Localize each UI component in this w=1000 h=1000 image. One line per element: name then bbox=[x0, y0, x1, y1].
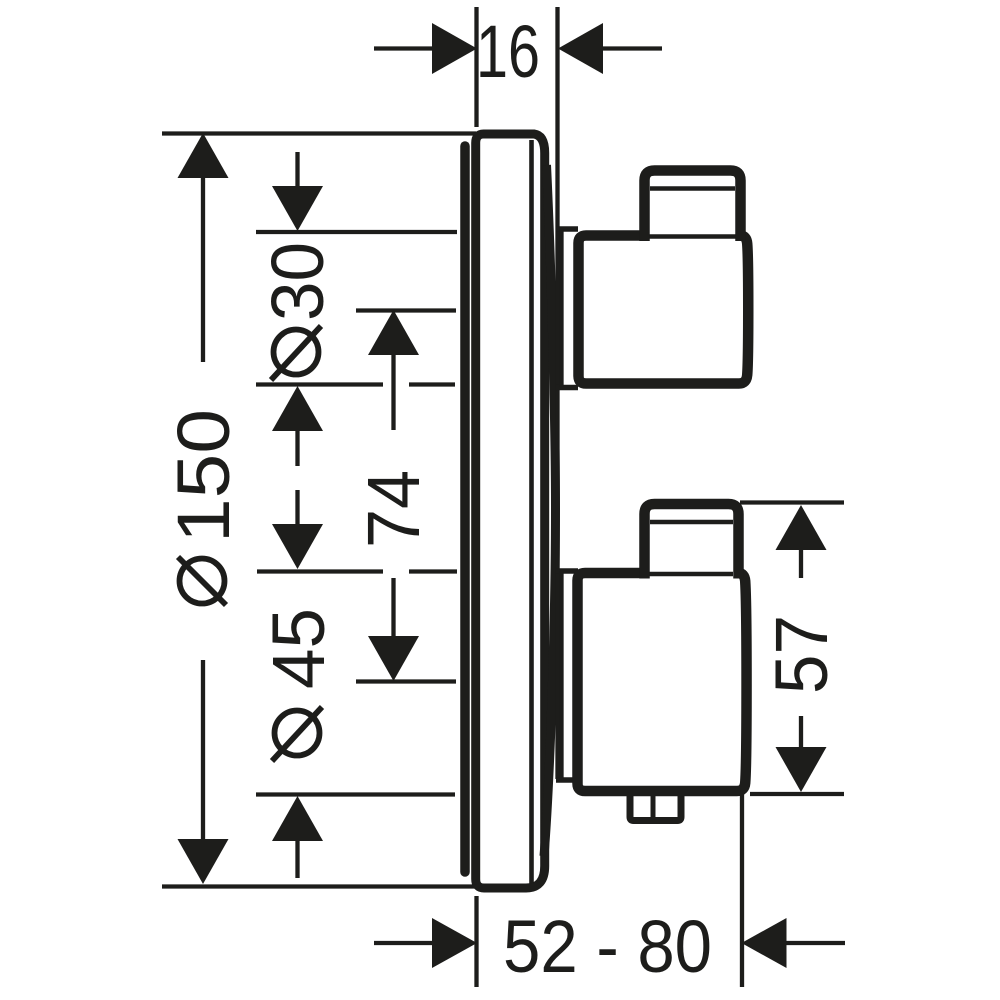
dimension 52-80 lines bbox=[477, 794, 743, 987]
arrow 57 top bbox=[776, 505, 827, 550]
svg-text:16: 16 bbox=[476, 10, 540, 93]
temperature stop tab bbox=[630, 791, 681, 821]
upper handle body top line under knob bbox=[648, 234, 736, 238]
upper knob inner line bbox=[650, 186, 735, 190]
arrow 16 right bbox=[558, 23, 603, 74]
arrow D150 top bbox=[178, 133, 229, 178]
arrow 16 left bbox=[432, 23, 477, 74]
label D45 bbox=[257, 608, 340, 761]
label 74 bbox=[352, 470, 435, 548]
arrow 52-80 right bbox=[742, 918, 787, 968]
dimension 57 lines bbox=[740, 503, 844, 795]
label 57 bbox=[760, 615, 843, 694]
upper valve neck bbox=[556, 229, 578, 388]
arrow 57 bottom bbox=[776, 747, 827, 792]
arrow D150 bottom bbox=[178, 839, 229, 884]
escutcheon plate outline bbox=[476, 134, 545, 888]
label D30 bbox=[256, 242, 339, 380]
arrow D45 bottom bbox=[272, 796, 323, 841]
lower valve neck bbox=[556, 571, 582, 780]
arrow 52-80 left bbox=[432, 918, 477, 968]
dimension 16 lines bbox=[374, 46, 662, 50]
arrow 74 bottom bbox=[368, 636, 419, 681]
arrow D30 bottom bbox=[272, 386, 323, 431]
arrow 74 top bbox=[368, 310, 419, 355]
lower knob inner line bbox=[650, 520, 733, 524]
upper knob bbox=[645, 171, 741, 242]
svg-text:150: 150 bbox=[162, 409, 245, 543]
dimension D45 lines bbox=[295, 490, 299, 526]
lower handle body top line under knob bbox=[649, 572, 733, 576]
dimension D150 extension lines bbox=[162, 134, 477, 887]
label D150 bbox=[162, 409, 245, 605]
lower knob bbox=[645, 504, 739, 579]
dimension 16 extension line left bbox=[474, 7, 478, 127]
wall flange line bbox=[460, 146, 470, 872]
dimension D30 lines bbox=[295, 152, 299, 188]
plate inner face line bbox=[529, 140, 534, 884]
front face extension line bbox=[555, 7, 559, 779]
svg-text:52 - 80: 52 - 80 bbox=[503, 905, 712, 988]
svg-text:30: 30 bbox=[256, 242, 339, 321]
arrow D30 top bbox=[272, 186, 323, 231]
dimension 74 lines bbox=[356, 311, 456, 682]
upper handle body bbox=[579, 236, 749, 384]
dimension D150 line bbox=[201, 176, 205, 842]
lower handle body bbox=[578, 573, 747, 791]
arrow D45 top bbox=[272, 524, 323, 569]
escutcheon face bulge arc bbox=[544, 165, 556, 856]
svg-text:45: 45 bbox=[257, 608, 340, 689]
svg-text:74: 74 bbox=[352, 470, 435, 548]
svg-text:57: 57 bbox=[760, 615, 843, 694]
